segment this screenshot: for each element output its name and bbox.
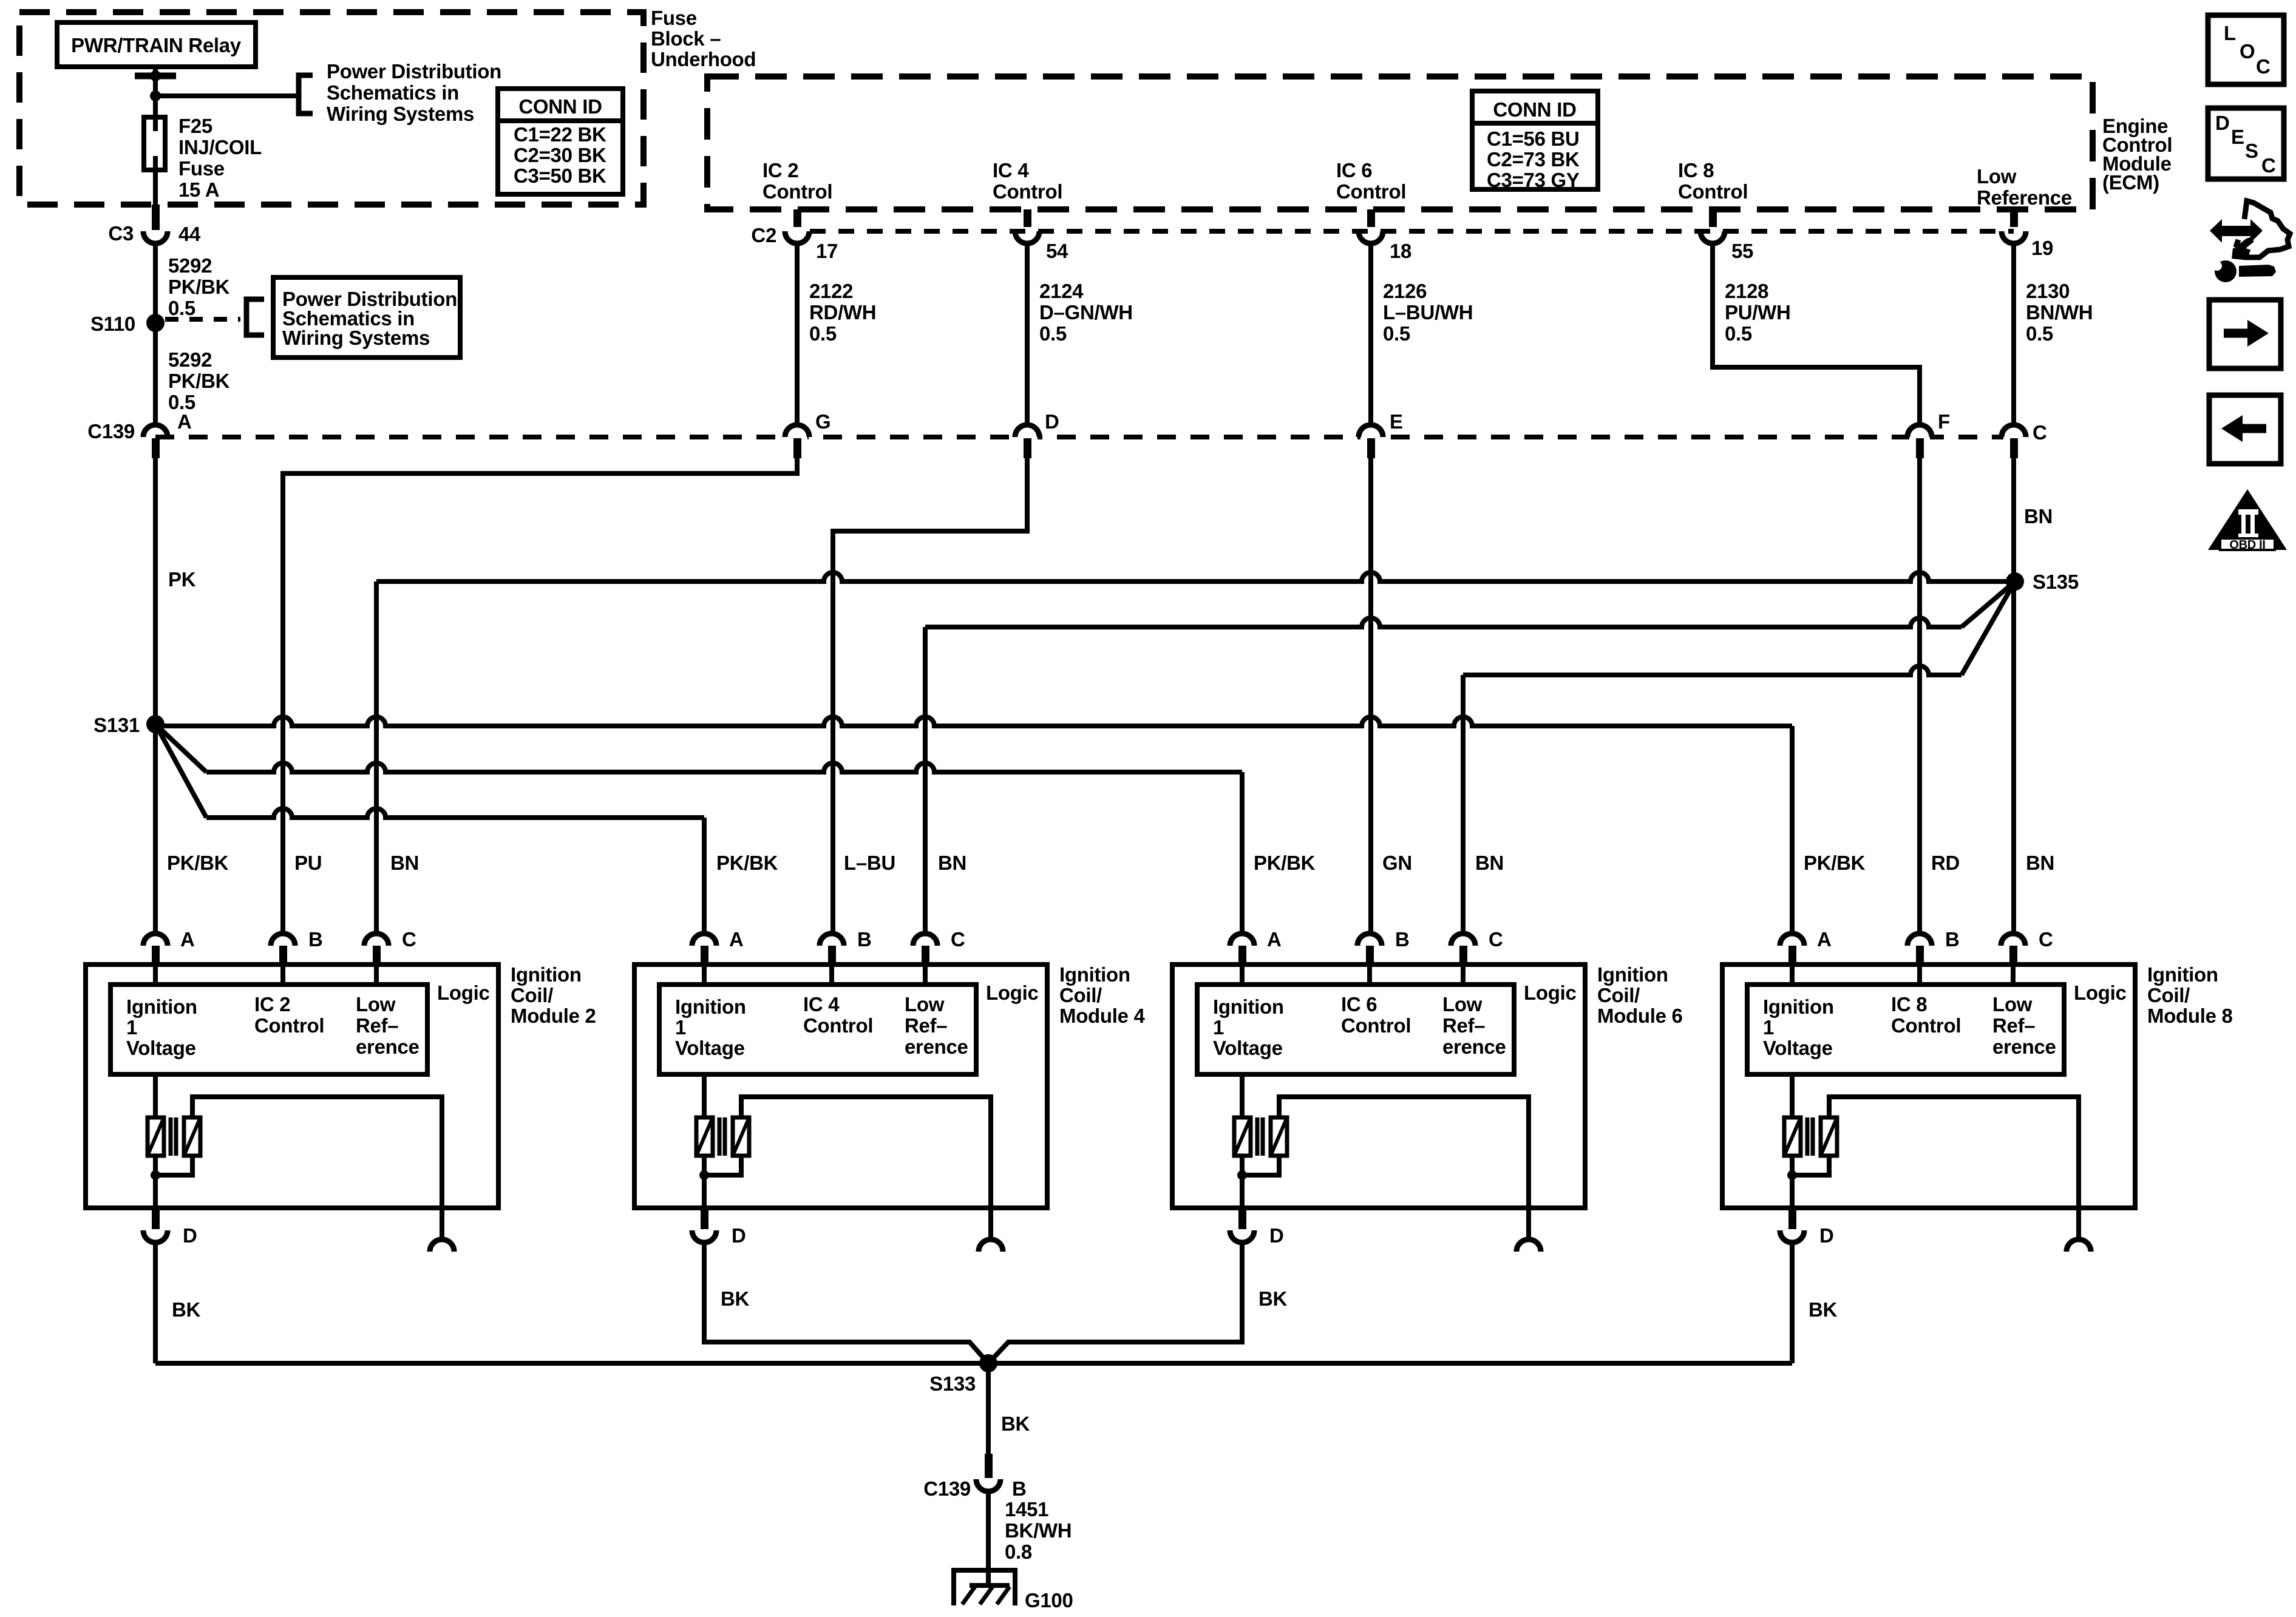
svg-text:O: O	[2240, 40, 2255, 63]
wire BK: module 4 pin D to S133	[704, 1242, 988, 1363]
svg-text:BN: BN	[390, 852, 419, 874]
svg-text:INJ/COIL: INJ/COIL	[178, 136, 262, 158]
ignition coil/module 2 pin B connector	[271, 934, 295, 946]
svg-text:Ignition: Ignition	[675, 995, 746, 1018]
svg-text:2124: 2124	[1039, 280, 1084, 302]
svg-text:OBD II: OBD II	[2229, 538, 2265, 552]
svg-text:C1=56 BU: C1=56 BU	[1487, 127, 1580, 150]
svg-text:Ref–: Ref–	[1442, 1014, 1485, 1037]
ignition coil/module 4 pin A connector	[692, 934, 716, 946]
relay K: PWR/TRAIN Relay	[57, 22, 256, 67]
ignition coil/module 8 pin A connector	[1780, 934, 1804, 946]
module 8 pin D connector	[1788, 1208, 1796, 1229]
ignition coil/module 4 pin B connector	[820, 934, 844, 946]
svg-text:PK/BK: PK/BK	[1804, 852, 1866, 874]
ECM pin stub 19	[2010, 209, 2018, 230]
svg-text:S133: S133	[929, 1372, 976, 1395]
module 2 logic inner box	[110, 985, 427, 1074]
svg-text:E: E	[2231, 126, 2244, 148]
svg-text:GN: GN	[1382, 852, 1412, 874]
svg-text:Fuse: Fuse	[651, 7, 697, 29]
wire BK: module 6 pin D to S133	[988, 1242, 1242, 1363]
svg-text:BN: BN	[2024, 505, 2053, 527]
svg-text:Logic: Logic	[437, 981, 490, 1004]
module 6 pin wires into logic box	[1240, 964, 1245, 986]
svg-text:S110: S110	[90, 313, 135, 335]
svg-text:A: A	[1817, 928, 1832, 951]
connector C139 pin C	[2003, 433, 2024, 441]
svg-text:Wiring Systems: Wiring Systems	[327, 103, 474, 125]
svg-text:Voltage: Voltage	[1213, 1037, 1283, 1059]
wire BN bus to module 6 pin C	[1463, 666, 1961, 675]
module 4 wire: secondary to low reference return	[741, 1097, 991, 1239]
connector C2 dashed line	[810, 229, 2014, 234]
svg-text:5292: 5292	[168, 348, 212, 371]
wire 2122 RD/WH 0.5 (IC 2)	[795, 243, 800, 425]
wire BK bus along bottom	[155, 1361, 1792, 1366]
svg-text:PK/BK: PK/BK	[168, 276, 230, 298]
icon: arrow left box	[2209, 395, 2281, 464]
svg-text:Low: Low	[1442, 993, 1483, 1015]
svg-text:BK: BK	[721, 1287, 750, 1310]
svg-text:S: S	[2245, 140, 2258, 162]
svg-text:Ignition: Ignition	[126, 995, 197, 1018]
module 6 pin D connector	[1238, 1208, 1246, 1229]
svg-text:54: 54	[1046, 240, 1068, 262]
svg-text:PWR/TRAIN Relay: PWR/TRAIN Relay	[71, 34, 242, 56]
svg-text:IC 2: IC 2	[254, 993, 290, 1015]
reference bracket: Power Distribution Schematics in Wiring Systems (S110)	[246, 299, 264, 335]
module 8 logic inner box	[1747, 985, 2064, 1074]
module 6 logic inner box	[1197, 985, 1514, 1074]
wire BK: module 8 pin D to S133	[1790, 1242, 1795, 1363]
wire: D to module 4 pin B (L-BU)	[833, 458, 1027, 934]
ignition coil/module 4 outer box	[634, 964, 1047, 1208]
svg-text:0.5: 0.5	[1383, 322, 1410, 345]
svg-text:PK/BK: PK/BK	[1254, 852, 1316, 874]
svg-text:0.5: 0.5	[809, 322, 837, 345]
module 4 secondary output connector (spark)	[979, 1239, 1003, 1252]
svg-text:Voltage: Voltage	[675, 1037, 745, 1059]
ECM pin stub 18	[1367, 209, 1375, 230]
svg-text:D–GN/WH: D–GN/WH	[1039, 301, 1133, 324]
svg-text:C: C	[402, 928, 416, 951]
module 8 coil common junction	[1790, 1156, 1795, 1175]
svg-text:F: F	[1938, 410, 1950, 433]
wire BK: S133 to C139 B	[986, 1363, 991, 1455]
svg-text:C139: C139	[87, 420, 135, 442]
wire PK/BK: S131 to module 2 pin A	[153, 724, 158, 934]
svg-text:Voltage: Voltage	[1763, 1037, 1833, 1059]
connector C2 pin 17	[787, 227, 807, 236]
ignition coil/module 4 pin C connector	[913, 934, 937, 946]
svg-text:E: E	[1390, 410, 1403, 433]
svg-text:D: D	[183, 1224, 197, 1247]
connector C2 pin 55	[1702, 227, 1723, 236]
svg-text:Fuse: Fuse	[178, 157, 225, 180]
svg-text:0.5: 0.5	[1039, 322, 1067, 345]
svg-text:L–BU: L–BU	[844, 852, 895, 874]
svg-text:D: D	[1819, 1224, 1834, 1247]
ignition coil/module 8 pin B connector	[1907, 934, 1932, 946]
svg-text:Ignition: Ignition	[1763, 995, 1834, 1018]
svg-text:B: B	[1945, 928, 1960, 951]
svg-text:Logic: Logic	[986, 981, 1039, 1004]
ECM pin stub 55	[1709, 209, 1717, 230]
svg-text:BN/WH: BN/WH	[2026, 301, 2093, 324]
svg-text:G: G	[815, 410, 830, 433]
svg-text:Ref–: Ref–	[905, 1014, 947, 1037]
module 6 wire: secondary to low reference return	[1279, 1097, 1529, 1239]
wire: relay output	[153, 67, 158, 118]
svg-text:Ignition: Ignition	[1059, 963, 1130, 986]
module 6 wire: voltage to coil primary	[1240, 1074, 1245, 1117]
svg-text:PU: PU	[294, 852, 322, 874]
svg-text:RD: RD	[1931, 852, 1960, 874]
connector C2 pin 54	[1017, 227, 1038, 236]
svg-text:Logic: Logic	[2074, 981, 2127, 1004]
svg-text:PU/WH: PU/WH	[1725, 301, 1791, 324]
module 4 coil common junction	[702, 1156, 707, 1175]
wire: G to module 2 pin B (PU)	[283, 458, 797, 934]
connector C139 dashed line	[155, 435, 2014, 439]
icon: arrow right box	[2209, 300, 2281, 368]
svg-text:C: C	[2261, 154, 2276, 177]
module 8 wire: secondary to low reference return	[1829, 1097, 2079, 1239]
svg-text:Module 8: Module 8	[2147, 1005, 2233, 1027]
svg-text:C: C	[2039, 928, 2053, 951]
module 2 pin wires into logic box	[153, 964, 158, 986]
svg-text:F25: F25	[178, 115, 212, 137]
svg-text:Control: Control	[1891, 1014, 1961, 1037]
svg-text:S131: S131	[93, 714, 140, 736]
svg-text:L: L	[2224, 22, 2236, 44]
svg-text:1: 1	[675, 1016, 686, 1039]
svg-text:Coil/: Coil/	[2147, 984, 2190, 1006]
svg-text:C: C	[2033, 421, 2047, 444]
svg-text:1: 1	[1213, 1016, 1224, 1039]
svg-text:Low: Low	[905, 993, 945, 1015]
module 2 ignition coil windings	[148, 1117, 164, 1156]
svg-text:B: B	[857, 928, 872, 951]
reference bracket: Power Distribution Schematics in Wiring Systems (top)	[299, 75, 313, 114]
module 2 pin D connector	[152, 1208, 160, 1229]
svg-text:2128: 2128	[1725, 280, 1768, 302]
wire: F to module 8 pin B (RD)	[1917, 458, 1922, 934]
icon: OBD II triangle	[2208, 489, 2287, 550]
module 6 secondary output connector (spark)	[1517, 1239, 1541, 1252]
svg-text:A: A	[177, 410, 192, 433]
svg-text:IC 4: IC 4	[803, 993, 840, 1015]
svg-text:IC 4: IC 4	[993, 159, 1029, 181]
connector C139 pin B	[985, 1454, 993, 1478]
wire 1451 BK/WH 0.8	[986, 1491, 991, 1570]
module 8 wire: voltage to coil primary	[1790, 1074, 1795, 1117]
module 2 secondary output connector (spark)	[430, 1239, 454, 1252]
svg-text:Coil/: Coil/	[511, 984, 553, 1006]
svg-text:1: 1	[126, 1016, 137, 1039]
fuse F25 INJ/COIL 15 A	[144, 117, 165, 170]
module 4 pin D connector	[701, 1208, 708, 1229]
svg-text:A: A	[180, 928, 195, 951]
svg-text:erence: erence	[905, 1036, 968, 1058]
svg-text:Module 6: Module 6	[1597, 1005, 1683, 1027]
svg-text:Ref–: Ref–	[356, 1014, 398, 1037]
wire BK: module 2 pin D to S133	[153, 1242, 158, 1363]
svg-text:C2: C2	[751, 224, 776, 246]
svg-text:1: 1	[1763, 1016, 1774, 1039]
svg-text:A: A	[1267, 928, 1282, 951]
svg-text:0.8: 0.8	[1005, 1541, 1032, 1563]
icon: diagnostic hand with wrench	[2210, 219, 2263, 243]
svg-text:19: 19	[2031, 237, 2053, 259]
connector C139 pin D	[1017, 433, 1038, 441]
splice S133	[979, 1354, 997, 1372]
ignition coil/module 6 pin B connector	[1357, 934, 1382, 946]
svg-text:S135: S135	[2033, 571, 2079, 593]
svg-text:Control: Control	[1678, 180, 1748, 203]
svg-text:Ignition: Ignition	[2147, 963, 2218, 986]
connector C139 pin A	[145, 433, 166, 441]
svg-text:A: A	[729, 928, 744, 951]
ignition coil/module 6 outer box	[1172, 964, 1585, 1208]
svg-text:2126: 2126	[1383, 280, 1427, 302]
wire 2128 PU/WH 0.5 (IC 8)	[1713, 243, 1920, 425]
svg-text:Ignition: Ignition	[1597, 963, 1668, 986]
wire BN: C139 C to S135	[2011, 458, 2016, 934]
ignition coil/module 8 outer box	[1722, 964, 2135, 1208]
CONN ID table (fuse block)	[498, 89, 623, 194]
module 8 pin wires into logic box	[1790, 964, 1795, 986]
wire: branch to power distribution note	[155, 93, 297, 98]
connector C139 pin E	[1360, 433, 1381, 441]
svg-text:erence: erence	[1992, 1036, 2056, 1058]
svg-text:D: D	[1045, 410, 1059, 433]
wire 2126 L-BU/WH 0.5 (IC 6)	[1368, 243, 1373, 425]
fuse block - underhood dashed box	[19, 12, 644, 205]
svg-text:Low: Low	[1992, 993, 2033, 1015]
splice S110	[146, 314, 165, 332]
svg-text:2130: 2130	[2026, 280, 2070, 302]
module 4 pin wires into logic box	[702, 964, 707, 986]
svg-text:CONN ID: CONN ID	[1493, 98, 1576, 121]
svg-text:Module 4: Module 4	[1059, 1005, 1146, 1027]
svg-text:Wiring Systems: Wiring Systems	[282, 327, 430, 349]
svg-text:Voltage: Voltage	[126, 1037, 196, 1059]
ignition coil/module 6 pin A connector	[1230, 934, 1254, 946]
svg-text:Underhood: Underhood	[651, 48, 756, 70]
ignition coil/module 6 pin C connector	[1451, 934, 1475, 946]
wire 2124 D-GN/WH 0.5 (IC 4)	[1025, 243, 1030, 425]
svg-text:C3=73 GY: C3=73 GY	[1487, 169, 1580, 191]
wire PK/BK bus to module 4 pin A	[155, 724, 206, 818]
svg-text:B: B	[1012, 1477, 1027, 1500]
icon: LOC box	[2208, 15, 2284, 84]
svg-text:Coil/: Coil/	[1059, 984, 1102, 1006]
svg-text:B: B	[1395, 928, 1410, 951]
svg-text:C: C	[951, 928, 965, 951]
svg-text:PK/BK: PK/BK	[168, 370, 230, 392]
module 2 wire: secondary to low reference return	[192, 1097, 442, 1239]
svg-text:IC 2: IC 2	[763, 159, 798, 181]
wire PK/BK bus to module 6 pin A	[155, 724, 206, 772]
wire BN bus to module 4 pin C	[925, 618, 1961, 627]
svg-text:C2=73 BK: C2=73 BK	[1487, 148, 1580, 171]
CONN ID table (ECM)	[1472, 91, 1598, 189]
svg-text:BK: BK	[172, 1298, 201, 1321]
svg-text:C3=50 BK: C3=50 BK	[514, 164, 606, 187]
svg-text:D: D	[2215, 112, 2230, 134]
ECM pin stub 17	[793, 209, 801, 230]
svg-text:1451: 1451	[1005, 1498, 1048, 1520]
module 6 coil common junction	[1240, 1156, 1245, 1175]
svg-text:0.5: 0.5	[1725, 322, 1752, 345]
svg-text:IC 8: IC 8	[1891, 993, 1927, 1015]
svg-text:IC 6: IC 6	[1341, 993, 1377, 1015]
svg-text:C: C	[1489, 928, 1503, 951]
svg-text:D: D	[732, 1224, 746, 1247]
svg-text:2122: 2122	[809, 280, 853, 302]
ignition coil/module 2 outer box	[86, 964, 498, 1208]
svg-text:Control: Control	[1336, 180, 1406, 203]
svg-text:C2=30 BK: C2=30 BK	[514, 144, 606, 166]
svg-text:Logic: Logic	[1524, 981, 1577, 1004]
svg-text:Low: Low	[356, 993, 396, 1015]
ECM pin stub 54	[1024, 209, 1031, 230]
svg-text:Control: Control	[763, 180, 832, 203]
svg-text:Control: Control	[1341, 1014, 1411, 1037]
svg-text:17: 17	[816, 240, 838, 262]
svg-text:Control: Control	[803, 1014, 873, 1037]
svg-text:BN: BN	[938, 852, 966, 874]
wire: fuse to C3	[153, 170, 158, 206]
svg-text:Control: Control	[254, 1014, 324, 1037]
svg-text:BN: BN	[2026, 852, 2054, 874]
module 4 wire: voltage to coil primary	[702, 1074, 707, 1117]
svg-text:Schematics in: Schematics in	[327, 81, 459, 104]
svg-text:5292: 5292	[168, 254, 212, 277]
svg-text:IC 6: IC 6	[1336, 159, 1372, 181]
ignition coil/module 8 pin C connector	[2001, 934, 2025, 946]
connector C3 pin 44	[152, 205, 160, 230]
svg-text:C139: C139	[923, 1477, 971, 1500]
svg-text:Low: Low	[1977, 165, 2017, 188]
svg-text:BK: BK	[1001, 1412, 1030, 1435]
svg-text:C: C	[2256, 55, 2271, 78]
wire 5292 PK/BK 0.5 (upper)	[153, 243, 158, 323]
svg-text:18: 18	[1390, 240, 1411, 262]
module 2 wire: voltage to coil primary	[153, 1074, 158, 1117]
svg-text:Ignition: Ignition	[1213, 995, 1284, 1018]
module 8 ignition coil windings	[1784, 1117, 1801, 1156]
svg-text:44: 44	[178, 223, 201, 245]
connector C2 pin 18	[1360, 227, 1381, 236]
ECM dashed box	[707, 76, 2093, 209]
svg-text:G100: G100	[1025, 1589, 1073, 1612]
svg-text:PK/BK: PK/BK	[716, 852, 778, 874]
svg-text:15 A: 15 A	[178, 178, 219, 201]
svg-text:Coil/: Coil/	[1597, 984, 1640, 1006]
wire PK/BK bus to module 8 pin A	[155, 717, 1792, 726]
svg-text:Power Distribution: Power Distribution	[327, 60, 501, 83]
svg-text:CONN ID: CONN ID	[518, 95, 602, 118]
module 4 ignition coil windings	[696, 1117, 713, 1156]
wire: E to module 6 pin B (GN)	[1368, 458, 1373, 934]
svg-text:Reference: Reference	[1977, 186, 2072, 209]
module 8 secondary output connector (spark)	[2067, 1239, 2091, 1252]
wire BN bus to module 2 pin C	[376, 572, 2007, 581]
module 2 coil common junction	[153, 1156, 158, 1175]
svg-text:55: 55	[1731, 240, 1753, 262]
ignition coil/module 2 pin C connector	[364, 934, 389, 946]
icon: DESC box	[2208, 108, 2284, 179]
connector C139 pin F	[1909, 433, 1930, 441]
svg-text:IC 8: IC 8	[1678, 159, 1714, 181]
svg-text:BK: BK	[1809, 1298, 1838, 1321]
svg-text:RD/WH: RD/WH	[809, 301, 876, 324]
svg-text:C1=22 BK: C1=22 BK	[514, 123, 606, 146]
svg-text:BN: BN	[1475, 852, 1504, 874]
wire PK: C139 A to S131	[153, 458, 158, 724]
svg-text:D: D	[1269, 1224, 1284, 1247]
svg-text:Control: Control	[993, 180, 1062, 203]
svg-text:Ref–: Ref–	[1992, 1014, 2035, 1037]
svg-text:PK/BK: PK/BK	[167, 852, 229, 874]
svg-text:BK/WH: BK/WH	[1005, 1519, 1072, 1542]
junction bar and dots below relay	[135, 73, 176, 80]
ignition coil/module 2 pin A connector	[143, 934, 168, 946]
svg-text:erence: erence	[1442, 1036, 1506, 1058]
svg-text:C3: C3	[108, 222, 134, 245]
svg-text:PK: PK	[168, 568, 196, 591]
wire 5292 PK/BK 0.5 (lower)	[153, 323, 158, 425]
svg-text:(ECM): (ECM)	[2102, 171, 2159, 194]
splice S135	[2006, 572, 2024, 591]
connector C2 pin 19	[2003, 227, 2024, 236]
svg-text:0.5: 0.5	[168, 297, 195, 319]
svg-text:B: B	[308, 928, 323, 951]
svg-text:Block –: Block –	[651, 27, 721, 50]
wire 2130 BN/WH 0.5 (Low Reference)	[2011, 243, 2016, 425]
module 6 ignition coil windings	[1234, 1117, 1251, 1156]
svg-text:erence: erence	[356, 1036, 419, 1058]
svg-text:Ignition: Ignition	[511, 963, 582, 986]
svg-text:0.5: 0.5	[2026, 322, 2053, 345]
ground G100	[951, 1568, 1017, 1573]
connector C139 pin G	[787, 433, 807, 441]
svg-text:BK: BK	[1258, 1287, 1288, 1310]
splice S131	[146, 715, 165, 733]
svg-text:Module 2: Module 2	[511, 1005, 596, 1027]
svg-text:L–BU/WH: L–BU/WH	[1383, 301, 1473, 324]
module 4 logic inner box	[659, 985, 976, 1074]
